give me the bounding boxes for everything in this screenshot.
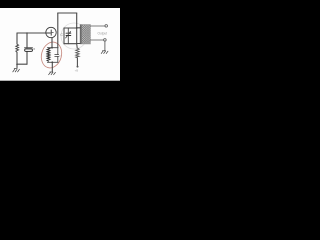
variable capacitor arrow	[66, 32, 71, 38]
wire: left vertical (grid leak branch)	[16, 33, 18, 44]
wire: right vertical down to tank rect	[76, 13, 78, 28]
inductor L1 (motional arm coil)	[47, 48, 50, 61]
node: +B supply dot	[77, 66, 79, 68]
node: junction of crystal X lead on grid wire	[26, 32, 28, 34]
resonator right side with shunt capacitor C0	[57, 48, 59, 63]
transformer T1 core block	[80, 25, 91, 45]
node: junction at bottom-left corner	[16, 63, 18, 65]
wire: resonator to ground	[51, 62, 53, 71]
tank rectangle top wire	[64, 27, 77, 29]
crystal X (plate and shell)	[25, 47, 33, 49]
resistor R2 (plate feed)	[76, 48, 80, 58]
tube V1 (envelope circle)	[46, 27, 56, 37]
tank rectangle left side	[63, 28, 65, 44]
wire: crystal X bottom lead	[26, 51, 28, 64]
wire: bottom-left horizontal	[17, 63, 27, 65]
wire: output bottom to ground	[104, 41, 106, 50]
wire: top-left horizontal grid wire	[17, 32, 46, 34]
capacitor C0 plates	[55, 55, 59, 57]
svg-text:Output: Output	[98, 32, 108, 36]
tube V1 inner grid lead	[46, 32, 50, 34]
wire: top rail horizontal	[58, 12, 77, 14]
wire: tube bottom lead to resonator	[51, 38, 53, 48]
transformer primary edge	[80, 25, 82, 45]
terminal: output bottom	[104, 39, 107, 42]
resistor R1 (grid leak)	[16, 44, 19, 52]
wire: stub tank to transformer top	[77, 27, 80, 29]
terminal: output top	[105, 25, 108, 28]
wire: plate rail vertical (right of tube)	[57, 13, 59, 48]
variable capacitor C leads	[67, 28, 69, 44]
node: junction top-right of tank	[76, 27, 78, 29]
crystal outline ellipse (red, tilted)	[38, 40, 64, 71]
resonator top wire	[47, 47, 58, 49]
wire: R2 to supply terminal	[76, 58, 78, 66]
tank rectangle right side	[76, 28, 78, 44]
ground (right)	[101, 51, 108, 54]
page background	[0, 0, 120, 90]
svg-text:+B: +B	[75, 68, 79, 72]
faint envelope circle	[61, 23, 87, 49]
wire: output bottom lead	[91, 39, 104, 41]
node: junction on resonator bottom	[51, 61, 53, 63]
tank rectangle bottom wire	[64, 43, 77, 45]
ground (center)	[49, 72, 56, 75]
wire: stub tank to transformer bottom	[77, 43, 80, 45]
svg-text:x: x	[33, 47, 35, 51]
node: junction on resonator top	[51, 47, 53, 49]
svg-text:C: C	[60, 33, 63, 37]
tube V1 side tick	[52, 32, 53, 34]
wire: below R1 to ground	[16, 52, 18, 67]
wire: below tank to resistor R2	[76, 44, 79, 48]
tube V1 cathode bar	[50, 30, 52, 35]
wire: crystal X top lead	[26, 33, 28, 48]
variable capacitor C plates	[66, 33, 71, 35]
resonator bottom wire	[47, 61, 58, 63]
ground (left)	[13, 69, 20, 72]
wire: output top lead	[91, 25, 105, 27]
